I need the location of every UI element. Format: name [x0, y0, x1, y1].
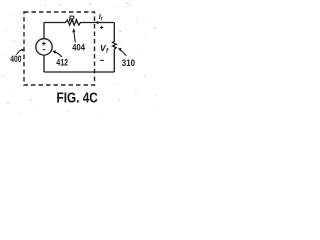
plus mark of Vf	[100, 26, 103, 29]
wire bottom	[44, 71, 114, 73]
wire right with resistor 310 zigzag	[113, 23, 117, 73]
dashed block 400 boundary	[24, 12, 95, 85]
svg-text:400: 400	[10, 54, 21, 65]
scan speckle noise (decorative)	[3, 3, 157, 114]
wire left lower segment	[43, 55, 45, 72]
wire left upper segment	[43, 23, 45, 39]
current source 412 circle	[36, 39, 52, 55]
leader arrow for 412	[56, 52, 62, 57]
svg-text:310: 310	[122, 58, 135, 69]
current source plus sign	[42, 42, 46, 46]
minus mark of Vf	[100, 59, 103, 61]
leader arrow for 310	[121, 50, 127, 56]
svg-text:FIG. 4C: FIG. 4C	[57, 90, 98, 106]
current source minus sign	[43, 49, 46, 51]
leader arrow for 404	[74, 32, 76, 43]
leader arrow for 400	[17, 50, 23, 55]
svg-text:412: 412	[56, 57, 68, 68]
svg-text:R: R	[69, 14, 75, 23]
wire top with resistor Rt zigzag	[44, 20, 114, 25]
svg-text:404: 404	[72, 42, 85, 53]
current arrow It on top wire	[97, 21, 100, 24]
